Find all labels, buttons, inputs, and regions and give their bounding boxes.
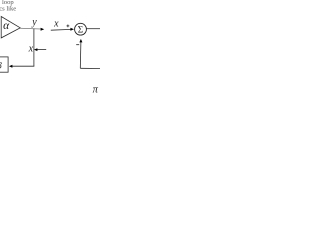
svg-text:β: β <box>0 61 2 71</box>
op-amp triangle alpha <box>1 17 20 38</box>
arrowhead into box <box>9 65 13 68</box>
wire x into summation <box>51 28 71 31</box>
svg-text:x: x <box>28 44 34 55</box>
svg-text:x: x <box>53 19 59 30</box>
arrowhead on wire y <box>41 28 45 31</box>
minus sign <box>76 44 79 46</box>
svg-text:Σ: Σ <box>78 26 83 36</box>
feedback return wire (right) <box>79 42 82 69</box>
summation output wire <box>86 28 100 30</box>
leader arrow pointing left at tap wire <box>36 49 46 51</box>
feedback box beta <box>0 57 8 72</box>
arrowhead into summation <box>70 28 74 31</box>
svg-text:y: y <box>31 17 37 28</box>
node junction: vertical tap from wire y <box>33 29 35 67</box>
feedback wire into box <box>12 65 35 67</box>
svg-text:cs like: cs like <box>0 5 16 12</box>
svg-text:α: α <box>3 20 10 32</box>
wire y: triangle output <box>20 27 41 30</box>
svg-text:π: π <box>93 85 99 96</box>
summation node sigma <box>75 23 87 35</box>
plus sign <box>67 25 70 27</box>
